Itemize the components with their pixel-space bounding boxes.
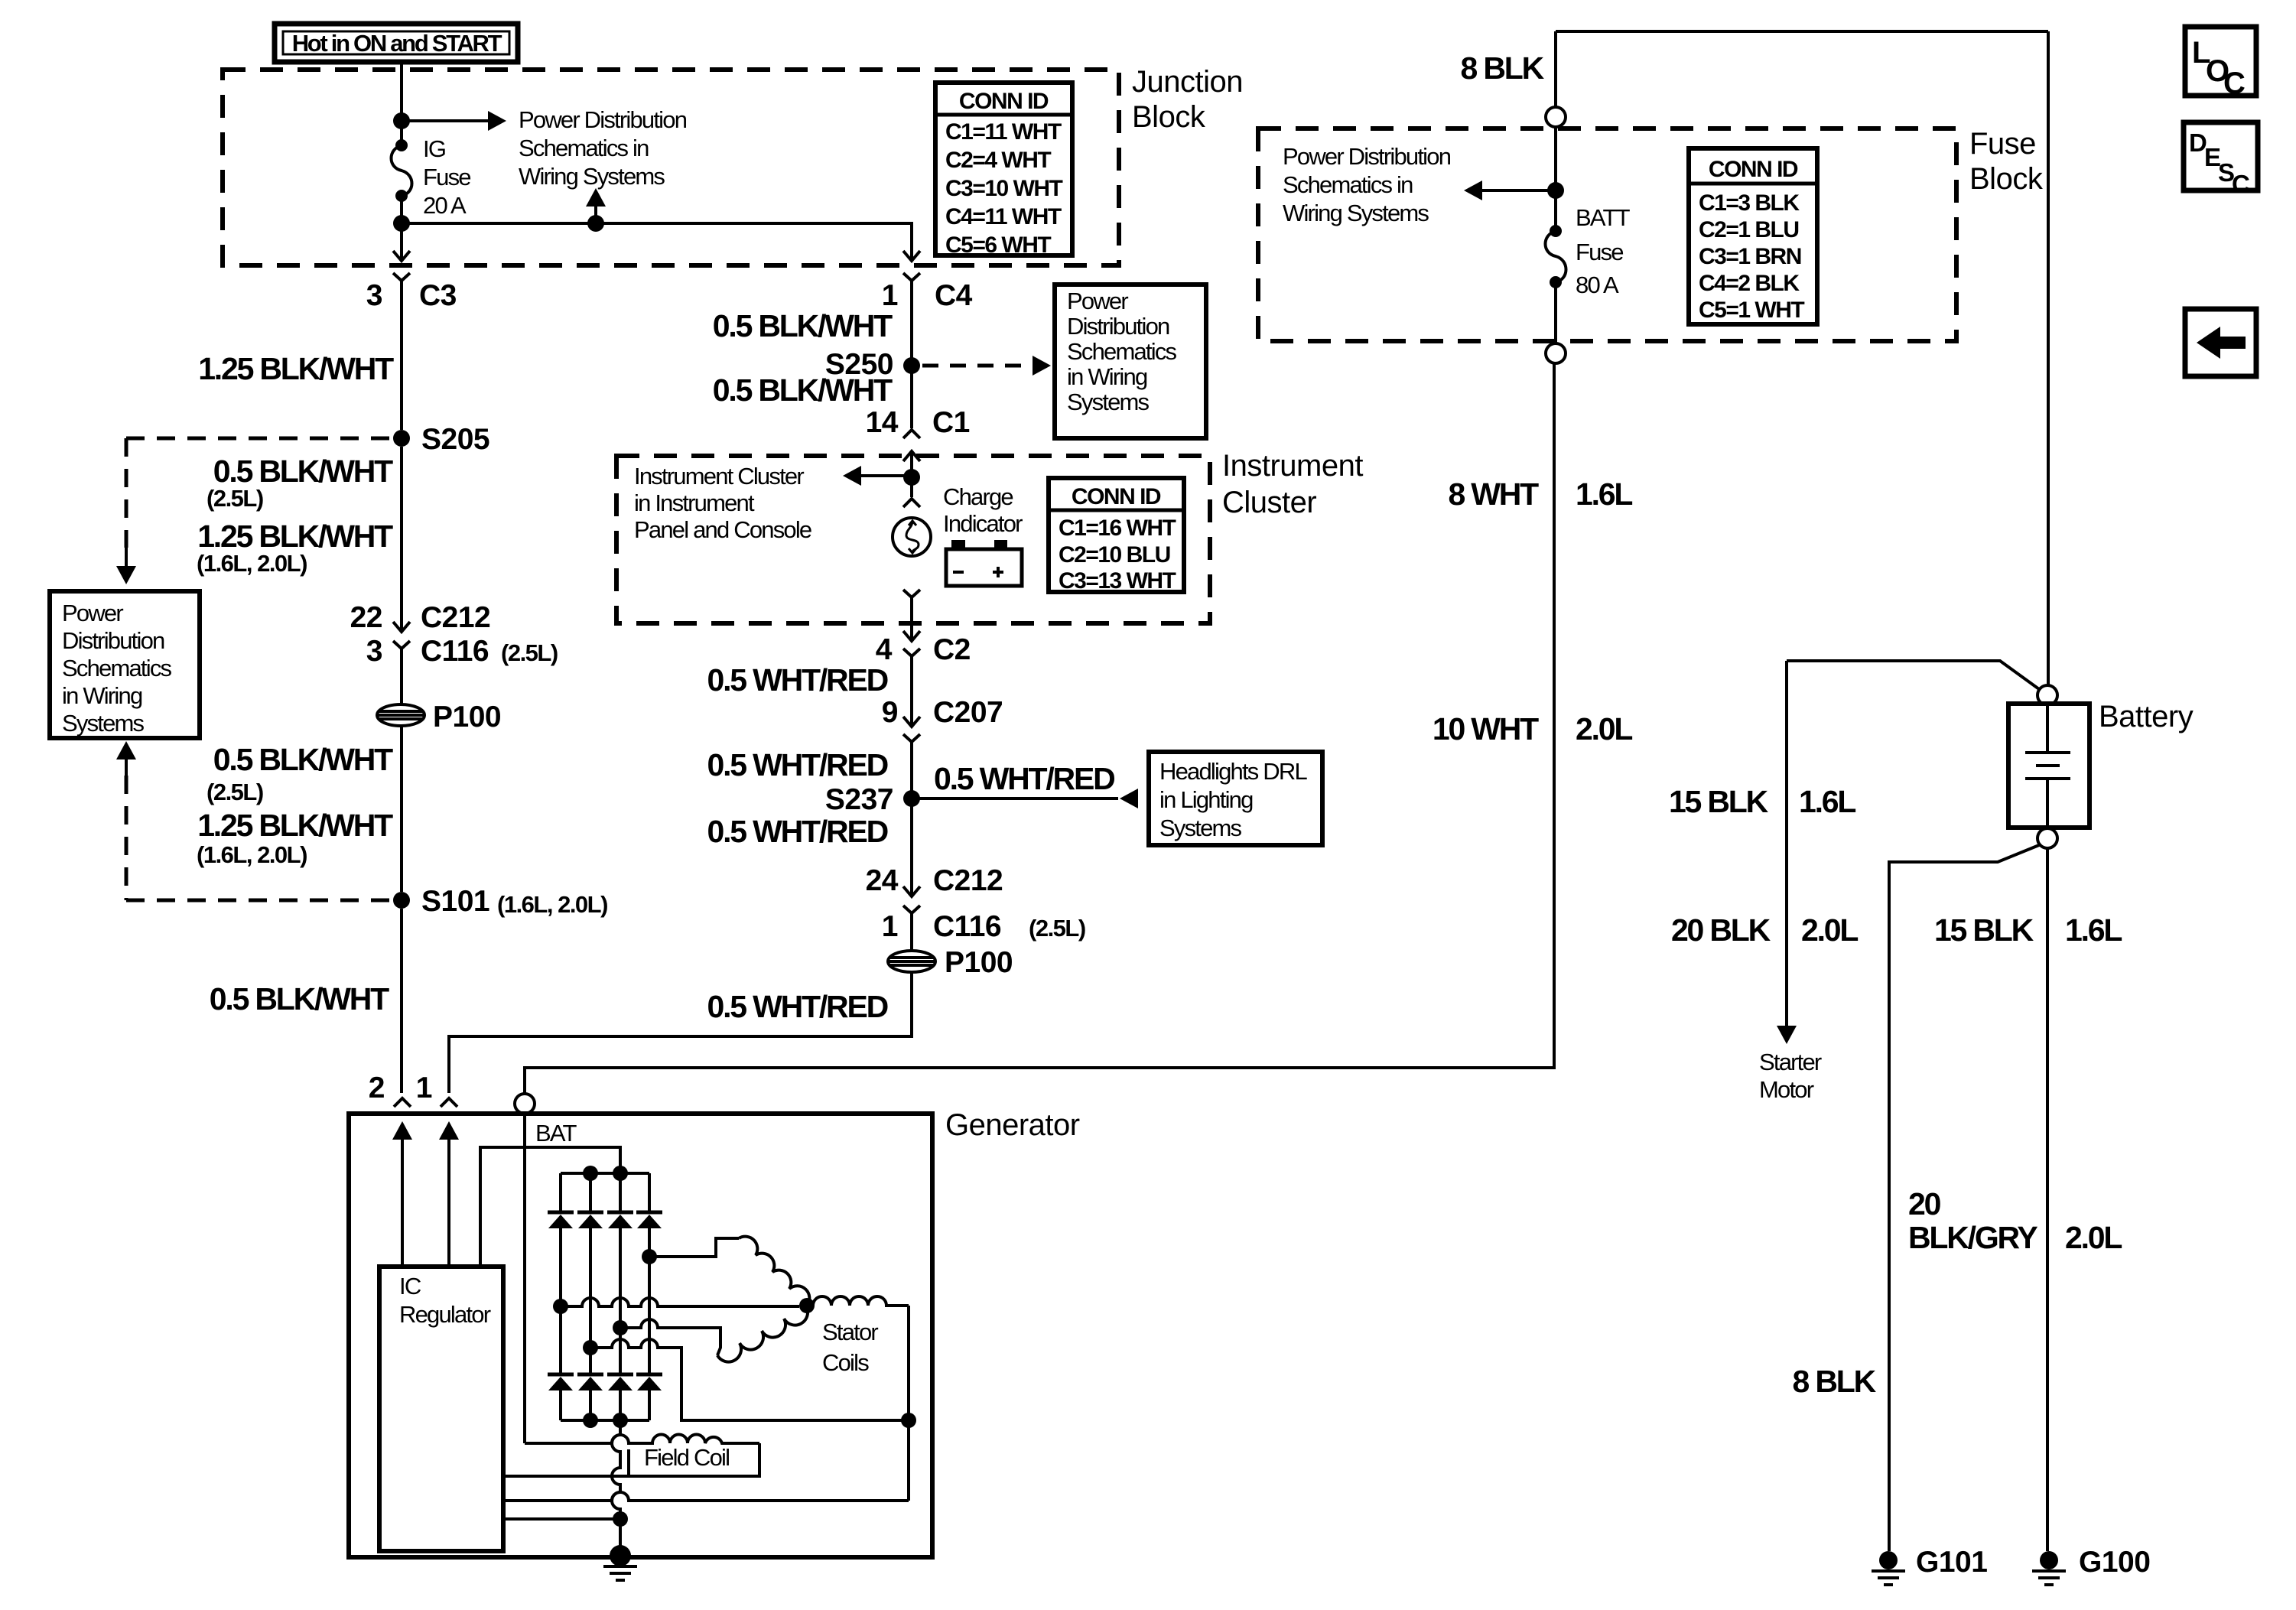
wire rectifier column 2 middle — [589, 1228, 592, 1374]
svg-text:Generator: Generator — [945, 1108, 1080, 1142]
wire 0.5 WHT/RED from P100 to generator pin 1 — [449, 972, 912, 1093]
diode D1 (top row) — [548, 1211, 574, 1215]
svg-text:2.0L: 2.0L — [1576, 711, 1632, 746]
arrow (left) to power distribution schematics (fuse block) — [1464, 181, 1482, 200]
tap phase C (column 3) — [613, 1320, 628, 1335]
svg-text:Systems: Systems — [62, 710, 145, 737]
svg-text:Hot in ON and START: Hot in ON and START — [292, 30, 502, 57]
junction regulator ground / rectifier ground — [613, 1511, 628, 1527]
svg-text:8 BLK: 8 BLK — [1461, 50, 1545, 86]
svg-text:C4=2 BLK: C4=2 BLK — [1699, 271, 1800, 296]
reference box: headlights DRL — [1149, 752, 1322, 845]
diode D7 (bottom row) — [607, 1373, 633, 1377]
svg-text:IG: IG — [423, 135, 445, 162]
wire BLK/WHT from S205 to C212 — [400, 447, 403, 623]
svg-text:0.5 BLK/WHT: 0.5 BLK/WHT — [713, 372, 893, 408]
svg-text:P100: P100 — [433, 701, 501, 733]
svg-text:C3=1 BRN: C3=1 BRN — [1699, 244, 1801, 269]
wire rectifier column 2 lower — [589, 1390, 592, 1420]
svg-text:15 BLK: 15 BLK — [1669, 784, 1769, 819]
icon box LOC — [2185, 27, 2256, 96]
icon box back-arrow — [2185, 309, 2256, 376]
svg-text:9: 9 — [882, 696, 898, 729]
svg-text:in Wiring: in Wiring — [62, 682, 142, 709]
stator coil L3 (diagonal) — [717, 1306, 808, 1362]
terminal into fuse block — [1546, 107, 1566, 127]
svg-text:BAT: BAT — [535, 1120, 577, 1147]
svg-text:Wiring Systems: Wiring Systems — [1283, 200, 1429, 226]
splice S250 — [903, 357, 920, 374]
svg-text:C5=6 WHT: C5=6 WHT — [945, 233, 1051, 258]
wire 0.5 BLK/WHT from C4 to C1 — [910, 298, 913, 428]
wire battery negative to G100 — [2046, 848, 2049, 1551]
fuse BATT Fuse 80 A — [1550, 225, 1562, 237]
svg-text:Panel and Console: Panel and Console — [634, 516, 811, 543]
diode D2 (top row) — [577, 1211, 603, 1215]
svg-text:Battery: Battery — [2099, 700, 2194, 733]
connector C4 female half (Y) — [903, 273, 920, 298]
svg-text:1.6L: 1.6L — [1576, 476, 1632, 512]
svg-text:0.5 WHT/RED: 0.5 WHT/RED — [707, 747, 888, 782]
svg-text:1: 1 — [882, 910, 898, 943]
svg-text:Block: Block — [1969, 162, 2044, 196]
junction rectifier top rail / column 3 — [613, 1166, 628, 1181]
diode D6 (bottom row) — [577, 1373, 603, 1377]
connector C212 (22) male half (arrow down) — [393, 612, 410, 632]
pass-through grommet P100 (left) — [377, 704, 424, 726]
svg-text:C212: C212 — [933, 864, 1003, 897]
svg-text:C212: C212 — [421, 601, 490, 634]
svg-text:BLK/GRY: BLK/GRY — [1908, 1220, 2037, 1255]
ground ground G101 — [1879, 1551, 1898, 1569]
svg-text:1.25 BLK/WHT: 1.25 BLK/WHT — [198, 351, 394, 386]
wire field coil return to regulator (with hop) — [503, 1475, 629, 1478]
svg-text:Indicator: Indicator — [943, 510, 1023, 537]
svg-text:G101: G101 — [1916, 1546, 1987, 1579]
svg-text:Fuse: Fuse — [423, 164, 470, 190]
svg-text:C1: C1 — [932, 406, 970, 439]
svg-text:C116: C116 — [933, 910, 1001, 943]
wire positive link to starter branch — [1787, 661, 2039, 689]
field coil label box — [629, 1443, 759, 1476]
connector C2 male half (arrow down) — [903, 621, 920, 641]
terminal out of fuse block — [1546, 343, 1566, 363]
svg-text:Starter: Starter — [1759, 1049, 1822, 1075]
svg-text:Charge: Charge — [943, 483, 1013, 510]
connector C207 female half (Y) — [903, 734, 920, 754]
wire battery positive riser — [2047, 31, 2050, 685]
svg-text:CONN ID: CONN ID — [959, 89, 1049, 114]
wire drop to P100 (middle) — [910, 925, 913, 951]
wire stator phase C return (right vertical) — [907, 1306, 910, 1501]
wire 0.5 WHT/RED from C207 to C212 — [910, 754, 913, 878]
svg-text:22: 22 — [350, 601, 382, 634]
junction block boundary (dashed) — [223, 70, 1119, 265]
dashed reference link (left) bottom segment — [126, 899, 392, 903]
svg-text:Schematics in: Schematics in — [519, 135, 649, 161]
connector id table (instrument cluster) — [1049, 478, 1184, 592]
wire rectifier column 1 lower — [559, 1390, 562, 1420]
diode D3 (top row) — [607, 1211, 633, 1215]
dashed link S250 to reference box — [922, 364, 1034, 368]
svg-text:C5=1 WHT: C5=1 WHT — [1699, 298, 1804, 323]
connector C1 male half (arrow up) — [903, 451, 920, 467]
svg-text:C2=1 BLU: C2=1 BLU — [1699, 217, 1799, 242]
junction of IG-fuse feed and power-distribution branch — [393, 112, 410, 129]
arrow (up) generator pin 1 feed — [439, 1121, 459, 1140]
svg-text:S205: S205 — [421, 423, 489, 456]
svg-text:Schematics in: Schematics in — [1283, 171, 1413, 198]
arrow (left) to instrument cluster schematics — [843, 466, 861, 486]
wire phase C lead with hop — [620, 1319, 720, 1355]
wire pin 2 lead to IC regulator — [401, 1135, 404, 1267]
svg-text:C2=4 WHT: C2=4 WHT — [945, 148, 1051, 173]
svg-text:0.5 BLK/WHT: 0.5 BLK/WHT — [213, 742, 393, 777]
wire cluster feed internal — [910, 467, 913, 497]
svg-text:C3=13 WHT: C3=13 WHT — [1059, 568, 1176, 594]
svg-text:4: 4 — [876, 633, 893, 666]
svg-text:C1=11 WHT: C1=11 WHT — [945, 119, 1062, 145]
ground generator case ground — [610, 1545, 631, 1566]
svg-text:0.5 BLK/WHT: 0.5 BLK/WHT — [210, 981, 389, 1016]
battery negative terminal — [2037, 828, 2057, 848]
wire 8 BLK battery feed (top run) — [1556, 30, 2048, 33]
svg-text:Instrument Cluster: Instrument Cluster — [634, 463, 804, 490]
wire regulator ground lead — [503, 1517, 620, 1521]
tap phase B (column 1) — [553, 1299, 568, 1314]
arrow (down) to starter motor — [1777, 1026, 1797, 1044]
battery cell plates — [2025, 705, 2070, 828]
pass-through grommet P100 (middle) — [888, 951, 935, 972]
svg-text:2.0L: 2.0L — [2065, 1220, 2122, 1255]
svg-text:0.5 WHT/RED: 0.5 WHT/RED — [707, 662, 888, 698]
svg-text:Headlights DRL: Headlights DRL — [1159, 758, 1307, 785]
wire cluster output internal — [910, 610, 913, 621]
dashed reference link (left) left segment lower — [125, 776, 128, 900]
svg-text:1: 1 — [416, 1072, 432, 1104]
stator coil L2 (horizontal) — [813, 1296, 909, 1306]
wire phase A lead — [649, 1238, 739, 1257]
svg-text:S101: S101 — [421, 885, 489, 918]
splice S205 — [393, 430, 410, 447]
svg-text:(1.6L, 2.0L): (1.6L, 2.0L) — [197, 841, 307, 868]
svg-text:Power: Power — [1067, 288, 1128, 314]
svg-text:3: 3 — [366, 279, 382, 312]
svg-text:20 A: 20 A — [423, 192, 467, 219]
diode D5 (bottom row) — [548, 1373, 574, 1377]
svg-text:14: 14 — [866, 406, 899, 439]
reference box: power distribution schematics (left) — [50, 591, 200, 738]
wire rectifier bottom rail — [561, 1419, 649, 1422]
svg-text:Distribution: Distribution — [1067, 313, 1169, 340]
svg-text:C: C — [2232, 170, 2250, 198]
svg-text:Block: Block — [1132, 100, 1206, 134]
svg-text:Systems: Systems — [1159, 815, 1242, 841]
svg-text:1.6L: 1.6L — [1799, 784, 1855, 819]
junction rectifier bottom rail / column 2 — [583, 1413, 598, 1428]
svg-text:10 WHT: 10 WHT — [1433, 711, 1539, 746]
connector C3 female half (Y) — [393, 273, 410, 298]
connector C207 male half (arrow down) — [903, 707, 920, 727]
terminal BAT (ring) — [515, 1094, 535, 1114]
svg-text:Junction: Junction — [1132, 65, 1243, 99]
junction to cluster reference arrow — [903, 469, 920, 486]
wire rectifier column 3 lower — [619, 1390, 622, 1420]
svg-text:Wiring Systems: Wiring Systems — [519, 163, 665, 190]
svg-text:2: 2 — [369, 1072, 385, 1104]
arrow (up) out of reference box (up) — [116, 741, 136, 759]
wire pin 1 lead to IC regulator — [447, 1135, 450, 1267]
svg-text:C3=10 WHT: C3=10 WHT — [945, 176, 1063, 201]
icon box DESC — [2184, 122, 2258, 190]
wire rectifier top rail — [561, 1172, 649, 1175]
svg-text:(2.5L): (2.5L) — [207, 779, 263, 805]
dashed reference link (left) top segment — [126, 437, 392, 441]
wire rectifier negative to case ground (hops) — [612, 1420, 620, 1556]
svg-text:80 A: 80 A — [1576, 272, 1619, 298]
svg-text:C3: C3 — [419, 279, 457, 312]
svg-text:C1=3 BLK: C1=3 BLK — [1699, 190, 1800, 216]
tap to power distribution (junction block bus) — [587, 215, 604, 232]
wire rectifier column 4 lower — [648, 1390, 651, 1420]
svg-text:0.5 WHT/RED: 0.5 WHT/RED — [707, 814, 888, 849]
splice S237 — [903, 790, 920, 807]
svg-text:Power: Power — [62, 600, 123, 626]
svg-text:Schematics: Schematics — [1067, 338, 1177, 365]
svg-text:0.5 WHT/RED: 0.5 WHT/RED — [934, 761, 1114, 796]
svg-text:Field Coil: Field Coil — [644, 1444, 729, 1471]
svg-text:C4=11 WHT: C4=11 WHT — [945, 204, 1062, 229]
arrow (up) generator pin 2 feed — [392, 1121, 412, 1140]
svg-text:0.5 BLK/WHT: 0.5 BLK/WHT — [713, 308, 893, 343]
svg-text:8 WHT: 8 WHT — [1448, 476, 1539, 512]
connector C212 (24) male half (arrow down) — [903, 877, 920, 896]
wire 0.5 WHT/RED from C2 to C207 — [910, 668, 913, 708]
svg-text:3: 3 — [366, 635, 382, 668]
generator box — [349, 1114, 932, 1557]
wire arrow stem below reference box — [125, 759, 128, 776]
wire regulator sense lead to rectifier rail — [480, 1147, 620, 1267]
node: Hot in ON and START tag box — [275, 24, 518, 62]
wire branch to power distribution — [402, 119, 489, 122]
arrow (down) into power distribution reference box — [116, 566, 136, 584]
tap phase A (column 4) — [642, 1249, 657, 1264]
connector charge indicator (bottom) female half (Y) — [903, 590, 920, 610]
connector charge indicator (top) female half (inverted Y) — [903, 499, 920, 507]
connector C1 female half (inverted Y) — [903, 430, 920, 438]
wire regulator to stator neutral sense (with hop) — [503, 1492, 909, 1501]
wire branch to cluster reference — [861, 474, 912, 477]
svg-text:C2: C2 — [933, 633, 971, 666]
stator coil L1 (phase A diagonal) — [739, 1237, 809, 1306]
svg-text:C2=10 BLU: C2=10 BLU — [1059, 542, 1170, 568]
wire IG fuse output — [400, 196, 403, 223]
svg-text:Power Distribution: Power Distribution — [519, 106, 687, 133]
wire branch to power distribution (fuse block) — [1482, 189, 1556, 192]
svg-text:0.5 BLK/WHT: 0.5 BLK/WHT — [213, 454, 393, 489]
svg-text:20: 20 — [1908, 1186, 1941, 1221]
svg-text:(1.6L, 2.0L): (1.6L, 2.0L) — [497, 891, 607, 918]
svg-text:in Wiring: in Wiring — [1067, 363, 1147, 390]
splice to C4 run — [393, 215, 410, 232]
svg-text:15 BLK: 15 BLK — [1934, 912, 2034, 948]
svg-text:IC: IC — [399, 1273, 421, 1299]
svg-text:Coils: Coils — [822, 1349, 869, 1376]
svg-text:1.6L: 1.6L — [2065, 912, 2122, 948]
wire rectifier column 3 middle — [619, 1228, 622, 1374]
svg-text:(1.6L, 2.0L): (1.6L, 2.0L) — [197, 550, 307, 577]
connector id table (junction block) — [935, 83, 1072, 255]
wire output BAT wire to fuse block — [525, 363, 1554, 1094]
connector C116 (3) female half (Y) — [393, 641, 410, 661]
connector id table (fuse block) — [1689, 148, 1817, 324]
wire ignition feed into junction block — [400, 62, 403, 145]
arrow (right) to power distribution schematics — [488, 111, 506, 131]
arrow (right) S250 reference — [1033, 356, 1051, 376]
wire BAT internal lead down to field coil — [523, 1113, 526, 1443]
svg-text:Schematics: Schematics — [62, 655, 172, 681]
wire 0.5 BLK/WHT from S101 to generator pin 2 — [400, 909, 403, 1093]
arrow (left) from headlights DRL — [1120, 789, 1138, 808]
svg-text:Instrument: Instrument — [1222, 449, 1363, 483]
svg-text:(2.5L): (2.5L) — [501, 639, 558, 666]
wire battery negative to G101 — [1889, 845, 2039, 1551]
wire 1.25 BLK/WHT from C3 to S205 — [400, 298, 403, 430]
wire phase B lead with hops — [561, 1298, 799, 1306]
svg-text:8 BLK: 8 BLK — [1793, 1364, 1877, 1399]
connector C116 (1) female half (Y) — [903, 906, 920, 925]
svg-text:2.0L: 2.0L — [1801, 912, 1858, 948]
wire drop to C3 — [400, 223, 403, 242]
svg-text:P100: P100 — [945, 946, 1013, 979]
svg-text:Systems: Systems — [1067, 389, 1150, 415]
wire rectifier column 1 upper — [559, 1173, 562, 1212]
stator star point — [799, 1298, 815, 1313]
wire BLK/WHT from P100 to S101 — [400, 726, 403, 892]
tap neutral (column 2) — [583, 1340, 598, 1355]
reference box: power distribution schematics (middle) — [1055, 285, 1206, 438]
svg-text:C116: C116 — [421, 635, 489, 668]
battery pictograph (cluster icon) — [946, 549, 1022, 586]
svg-text:G100: G100 — [2079, 1546, 2150, 1579]
svg-text:Power Distribution: Power Distribution — [1283, 143, 1451, 170]
fuse block boundary (dashed) — [1258, 128, 1956, 341]
svg-text:BATT: BATT — [1576, 204, 1631, 231]
wire 0.5 WHT/RED branch to headlights DRL — [912, 797, 1118, 800]
wire fuse output to exit terminal — [1554, 282, 1557, 343]
svg-text:C207: C207 — [933, 696, 1003, 729]
svg-text:CONN ID: CONN ID — [1072, 484, 1161, 509]
connector C4 male half (arrow down) — [903, 241, 920, 261]
junction to power distribution (fuse block) — [1547, 182, 1564, 199]
fuse IG Fuse 20 A — [395, 139, 408, 151]
wire drop to fuse block — [1554, 31, 1557, 107]
svg-text:Stator: Stator — [822, 1319, 878, 1345]
wire rectifier column 2 upper — [589, 1173, 592, 1212]
diode D4 (top row) — [636, 1211, 662, 1215]
junction rectifier bottom rail / column 3 — [613, 1413, 628, 1428]
svg-text:1: 1 — [882, 279, 898, 312]
svg-text:C: C — [2223, 67, 2246, 100]
svg-text:24: 24 — [866, 864, 899, 897]
svg-text:Motor: Motor — [1759, 1076, 1814, 1103]
svg-text:1.25 BLK/WHT: 1.25 BLK/WHT — [197, 519, 393, 554]
diode D8 (bottom row) — [636, 1373, 662, 1377]
svg-text:S237: S237 — [825, 783, 893, 816]
wire rectifier column 3 upper — [619, 1173, 622, 1212]
wire starter motor feed — [1785, 661, 1788, 1026]
wire neutral lead with hops — [590, 1339, 909, 1420]
svg-text:Regulator: Regulator — [399, 1301, 491, 1328]
wire stub to power distribution arrow — [594, 205, 597, 223]
svg-text:0.5 WHT/RED: 0.5 WHT/RED — [707, 989, 888, 1024]
svg-text:Fuse: Fuse — [1576, 239, 1623, 265]
svg-text:Distribution: Distribution — [62, 627, 164, 654]
svg-text:CONN ID: CONN ID — [1709, 157, 1798, 182]
wire arrow stem into reference box — [125, 548, 128, 568]
ground ground G100 — [2040, 1551, 2058, 1569]
junction right vertical / bottom return — [901, 1413, 916, 1428]
instrument cluster boundary (dashed) — [616, 456, 1210, 623]
connector generator pin 1 female half (inverted Y) — [441, 1098, 457, 1107]
svg-text:in Instrument: in Instrument — [634, 490, 755, 516]
svg-text:20 BLK: 20 BLK — [1671, 912, 1771, 948]
wire fuse block internal feed — [1554, 127, 1557, 226]
battery B1 — [2008, 704, 2089, 828]
IC regulator U1 — [379, 1267, 503, 1551]
wire rectifier column 1 middle — [559, 1228, 562, 1374]
connector C3 male half (arrow down) — [393, 241, 410, 261]
svg-text:(2.5L): (2.5L) — [1029, 915, 1085, 942]
svg-text:in Lighting: in Lighting — [1159, 786, 1253, 813]
svg-text:Fuse: Fuse — [1969, 127, 2036, 161]
svg-text:C1=16 WHT: C1=16 WHT — [1059, 516, 1176, 541]
indicator lamp: charge indicator — [893, 518, 931, 556]
wire rectifier column 4 upper — [648, 1173, 651, 1212]
svg-text:Cluster: Cluster — [1222, 486, 1316, 519]
junction rectifier top rail / column 2 — [583, 1166, 598, 1181]
splice S101 — [393, 892, 410, 909]
svg-text:(2.5L): (2.5L) — [207, 485, 263, 512]
wire rectifier column 4 middle — [648, 1228, 651, 1374]
battery positive terminal — [2037, 685, 2057, 705]
field coil L4 — [525, 1435, 759, 1444]
dashed reference link (left) left segment upper — [125, 438, 128, 548]
wire junction block bus to C4 — [402, 223, 912, 242]
svg-text:C4: C4 — [935, 279, 973, 312]
connector C2 female half (Y) — [903, 649, 920, 668]
svg-text:1.25 BLK/WHT: 1.25 BLK/WHT — [197, 808, 393, 843]
connector generator pin 2 female half (inverted Y) — [394, 1098, 411, 1107]
wire drop to P100 — [400, 661, 403, 704]
arrow (up) to power distribution schematics (junction block) — [586, 188, 606, 207]
